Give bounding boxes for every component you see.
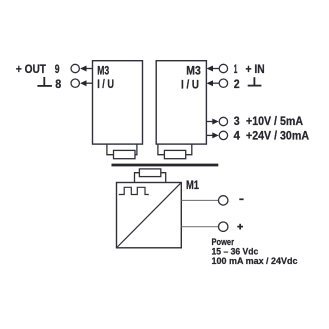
left block bus plug [107, 144, 137, 159]
svg-text:100 mA max / 24Vdc: 100 mA max / 24Vdc [212, 256, 298, 267]
right block bus plug [158, 144, 192, 159]
svg-text:2: 2 [234, 77, 240, 91]
svg-text:+10V / 5mA: +10V / 5mA [246, 114, 303, 128]
terminal 9 circle [71, 64, 79, 72]
terminal 4 wire + arrow [207, 134, 213, 136]
svg-text:M3: M3 [186, 64, 201, 78]
svg-text:4: 4 [234, 129, 241, 143]
diagonal converter line [117, 183, 180, 247]
plus sign [237, 224, 243, 230]
terminal 4 circle [219, 131, 227, 139]
terminal 9 wire + arrow [86, 68, 93, 70]
power terminal minus circle [219, 196, 228, 205]
terminal 1 circle [219, 64, 227, 72]
svg-text:9: 9 [55, 62, 60, 76]
module M3 right block [156, 61, 206, 144]
svg-text:+ OUT: + OUT [16, 62, 47, 76]
power wire plus [182, 226, 219, 228]
terminal 3 circle [219, 117, 227, 125]
svg-text:I / U: I / U [97, 77, 114, 91]
power supply M1 block [117, 183, 182, 248]
M1 bus plug [135, 169, 166, 183]
terminal 3 wire + arrow [207, 121, 213, 123]
svg-text:3: 3 [234, 114, 240, 128]
terminal 8 circle [71, 79, 79, 87]
module M3 left block [93, 61, 143, 144]
power rail bus [112, 164, 219, 167]
power wire minus [182, 199, 219, 201]
terminal 8 wire + arrow [86, 82, 93, 84]
terminal 2 wire + arrow [212, 82, 219, 84]
terminal 2 circle [219, 79, 227, 87]
ground symbol (terminal 8) [37, 77, 52, 86]
svg-text:1: 1 [234, 62, 238, 76]
square wave symbol [119, 187, 149, 194]
svg-text:+ IN: + IN [246, 62, 265, 76]
terminal 1 wire + arrow [212, 68, 219, 70]
power terminal plus circle [219, 222, 228, 231]
svg-text:8: 8 [55, 77, 61, 91]
svg-text:+24V / 30mA: +24V / 30mA [246, 129, 309, 143]
minus sign [239, 198, 243, 200]
svg-text:I / U: I / U [181, 77, 199, 91]
svg-text:M1: M1 [186, 178, 199, 192]
svg-text:M3: M3 [97, 64, 109, 78]
ground symbol (terminal 2) [248, 77, 262, 85]
